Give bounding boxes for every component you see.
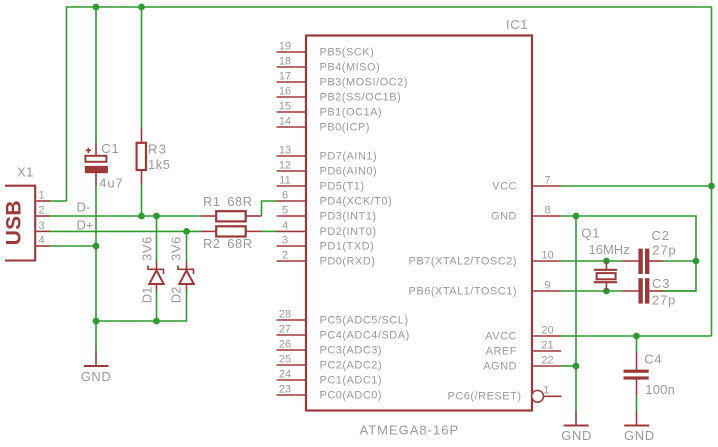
pin 15 PB1: [277, 111, 307, 113]
svg-text:12: 12: [279, 160, 291, 172]
svg-text:PC1(ADC1): PC1(ADC1): [320, 375, 383, 387]
wire XTAL1 pin9: [561, 290, 622, 292]
svg-text:13: 13: [279, 145, 291, 157]
svg-text:17: 17: [279, 71, 291, 83]
svg-text:GND: GND: [81, 369, 112, 384]
svg-text:6: 6: [282, 190, 288, 202]
svg-text:PB0(ICP): PB0(ICP): [320, 122, 370, 134]
svg-text:10: 10: [541, 250, 553, 262]
svg-text:R268R: R268R: [203, 236, 253, 251]
svg-text:AREF: AREF: [486, 345, 517, 357]
wire D2 to GND bus: [96, 290, 187, 321]
svg-text:1k5: 1k5: [148, 157, 170, 172]
pin 14 PB0: [277, 126, 307, 128]
svg-text:100n: 100n: [645, 382, 675, 397]
svg-text:3: 3: [282, 235, 288, 247]
svg-text:27: 27: [279, 324, 291, 336]
wire R2 to pin4 PD2: [262, 230, 277, 232]
wire AGND pin22: [561, 365, 576, 367]
svg-text:D1: D1: [140, 287, 155, 304]
pin 6 PD4: [277, 200, 307, 202]
capacitor C3 27p: [622, 276, 677, 307]
svg-text:20: 20: [541, 325, 553, 337]
wire C4 branch: [636, 336, 638, 352]
node junction GND vertical: [573, 213, 580, 220]
svg-text:4: 4: [39, 235, 45, 247]
resistor R2: [202, 226, 262, 251]
svg-text:PD0(RXD): PD0(RXD): [320, 256, 376, 268]
pin 20 AVCC: [532, 335, 561, 337]
pin 16 PB2: [277, 96, 307, 98]
wire USB pin1 to VCC rail: [50, 200, 67, 202]
pin 22 AGND: [532, 365, 561, 367]
diode D2 zener 3V6: [168, 231, 193, 303]
node junction D2 D+: [183, 228, 190, 235]
node junction top rail R3: [138, 4, 145, 11]
svg-text:C2: C2: [652, 228, 670, 243]
pin 25 PC2: [277, 364, 307, 366]
wire R3 to D-: [141, 185, 143, 216]
svg-text:11: 11: [279, 175, 290, 187]
IC U1 body ATMEGA8: [306, 17, 532, 437]
svg-text:27p: 27p: [652, 243, 676, 258]
wire C1 to GND bus: [95, 186, 97, 321]
node junction AGND: [573, 363, 580, 370]
node junction crystal top: [603, 258, 610, 265]
svg-text:GND: GND: [491, 210, 517, 222]
svg-text:D+: D+: [77, 218, 94, 233]
svg-text:14: 14: [279, 116, 291, 128]
svg-text:ATMEGA8-16P: ATMEGA8-16P: [360, 422, 460, 437]
svg-text:3: 3: [39, 220, 45, 232]
svg-text:8: 8: [544, 205, 550, 217]
svg-text:PB5(SCK): PB5(SCK): [320, 47, 375, 59]
pin 4 PD2: [277, 230, 307, 232]
wire AVCC pin20 to right rail: [561, 335, 712, 337]
ground GND middle: [561, 411, 592, 443]
svg-text:18: 18: [279, 56, 291, 68]
svg-text:USB: USB: [3, 200, 26, 245]
svg-text:9: 9: [544, 280, 550, 292]
svg-text:PD6(AIN0): PD6(AIN0): [320, 166, 378, 178]
svg-text:27p: 27p: [652, 293, 676, 308]
svg-text:15: 15: [279, 101, 291, 113]
svg-text:R168R: R168R: [203, 194, 253, 209]
pin 2 PD0: [277, 260, 307, 262]
node junction R3 D-: [138, 213, 145, 220]
svg-text:D2: D2: [168, 287, 183, 304]
pin 23 PC0: [277, 394, 307, 396]
svg-text:3V6: 3V6: [169, 236, 184, 261]
capacitor C1: [85, 7, 123, 190]
svg-text:16: 16: [279, 86, 291, 98]
wire AGND column: [575, 216, 577, 411]
svg-text:AVCC: AVCC: [485, 330, 517, 342]
wire VCC top rail: [67, 7, 712, 336]
svg-text:PD5(T1): PD5(T1): [320, 181, 365, 193]
svg-text:7: 7: [544, 175, 550, 187]
pin 1 PC6 reset with inversion bubble: [532, 390, 544, 402]
node junction top rail C1: [93, 4, 100, 11]
node junction C4 tap: [633, 333, 640, 340]
svg-text:PB2(SS/OC1B): PB2(SS/OC1B): [320, 92, 402, 104]
node junction GND bus D1: [153, 318, 160, 325]
pin 1 of X1: [36, 200, 50, 202]
svg-text:PB7(XTAL2/TOSC2): PB7(XTAL2/TOSC2): [409, 255, 517, 267]
svg-text:R3: R3: [148, 141, 167, 156]
svg-text:PB4(MISO): PB4(MISO): [320, 62, 381, 74]
svg-text:2: 2: [39, 205, 45, 217]
ground GND left: [81, 351, 112, 384]
resistor R1: [202, 194, 262, 221]
svg-text:22: 22: [541, 355, 553, 367]
node junction crystal bottom: [603, 288, 610, 295]
svg-text:3V6: 3V6: [139, 236, 154, 261]
svg-text:16MHz: 16MHz: [589, 242, 630, 257]
svg-text:2: 2: [282, 250, 288, 262]
svg-text:AGND: AGND: [483, 360, 517, 372]
svg-text:24: 24: [279, 369, 291, 381]
pin 3 PD1: [277, 245, 307, 247]
svg-text:1: 1: [543, 385, 549, 397]
svg-text:25: 25: [279, 354, 291, 366]
ground GND right: [624, 411, 655, 443]
svg-text:19: 19: [279, 41, 291, 53]
svg-text:PC4(ADC4/SDA): PC4(ADC4/SDA): [320, 330, 410, 342]
wire net D-: [50, 215, 202, 217]
svg-text:X1: X1: [17, 164, 34, 179]
svg-text:PB1(OC1A): PB1(OC1A): [320, 107, 383, 119]
wire USB pin4 to GND: [50, 245, 96, 247]
pin 19 PB5: [277, 51, 307, 53]
svg-text:PC2(ADC2): PC2(ADC2): [320, 360, 383, 372]
svg-text:C3: C3: [652, 276, 670, 291]
pin 2 of X1: [36, 215, 50, 217]
node junction GND bus C1: [93, 318, 100, 325]
node junction GND pin4: [93, 243, 100, 250]
svg-text:PC0(ADC0): PC0(ADC0): [320, 390, 383, 402]
svg-text:PD3(INT1): PD3(INT1): [320, 211, 377, 223]
pin 10 PB7: [532, 260, 561, 262]
pin 17 PB3: [277, 81, 307, 83]
capacitor C4 100n: [624, 351, 676, 397]
wire VCC pin7 to right rail: [561, 185, 712, 187]
pin 3 of X1: [36, 230, 50, 232]
pin 4 of X1: [36, 245, 50, 247]
svg-text:PC6(/RESET): PC6(/RESET): [448, 391, 522, 403]
node junction C2 right: [693, 258, 700, 265]
svg-text:PD4(XCK/T0): PD4(XCK/T0): [320, 196, 393, 208]
svg-text:PD1(TXD): PD1(TXD): [320, 241, 375, 253]
resistor R3: [137, 7, 171, 185]
wire R1 to pin6 PD4: [262, 201, 277, 216]
pin 7 VCC: [532, 185, 561, 187]
pin 8 GND: [532, 215, 561, 217]
svg-text:GND: GND: [624, 428, 655, 443]
svg-text:D-: D-: [77, 200, 91, 215]
wire D1 to GND bus: [156, 290, 158, 321]
pin 5 PD3: [277, 215, 307, 217]
svg-text:28: 28: [279, 309, 291, 321]
svg-text:PB3(MOSI/OC2): PB3(MOSI/OC2): [320, 77, 408, 89]
diode D1 zener 3V6: [139, 216, 163, 303]
svg-text:4u7: 4u7: [99, 175, 123, 190]
pin 13 PD7: [277, 155, 307, 157]
wire C3 right to GND net: [663, 290, 696, 292]
svg-text:5: 5: [282, 205, 288, 217]
pin 18 PB4: [277, 66, 307, 68]
svg-text:4: 4: [282, 220, 288, 232]
connector X1 USB body: [3, 164, 36, 260]
svg-text:C1: C1: [101, 141, 119, 156]
pin 9 PB6: [532, 290, 561, 292]
wire XTAL2 pin10: [561, 260, 622, 262]
pin 27 PC4: [277, 334, 307, 336]
svg-text:Q1: Q1: [581, 226, 600, 241]
pin 28 PC5: [277, 319, 307, 321]
pin 24 PC1: [277, 379, 307, 381]
node junction VCC right rail: [708, 183, 715, 190]
wire GND pin8 net: [561, 216, 696, 291]
wire C4 to GND: [636, 396, 638, 412]
wire net D+: [50, 230, 202, 232]
svg-text:PB6(XTAL1/TOSC1): PB6(XTAL1/TOSC1): [409, 285, 517, 297]
svg-text:26: 26: [279, 339, 291, 351]
pin 11 PD5: [277, 185, 307, 187]
wire C2 right to GND net: [663, 260, 696, 262]
capacitor C2 27p: [622, 228, 677, 274]
svg-text:PC5(ADC5/SCL): PC5(ADC5/SCL): [320, 315, 409, 327]
svg-text:PD7(AIN1): PD7(AIN1): [320, 151, 378, 163]
svg-text:PC3(ADC3): PC3(ADC3): [320, 345, 383, 357]
pin 21 AREF: [532, 350, 561, 352]
svg-text:C4: C4: [644, 351, 662, 366]
svg-text:1: 1: [39, 190, 45, 202]
svg-text:VCC: VCC: [492, 180, 517, 192]
pin 26 PC3: [277, 349, 307, 351]
node junction D1 D-: [153, 213, 160, 220]
svg-text:GND: GND: [561, 428, 592, 443]
pin 12 PD6: [277, 170, 307, 172]
svg-text:21: 21: [541, 340, 553, 352]
wire GND bus down: [95, 321, 97, 351]
crystal Q1 16MHz: [581, 226, 629, 291]
svg-text:PD2(INT0): PD2(INT0): [320, 226, 377, 238]
svg-text:23: 23: [279, 384, 291, 396]
svg-text:IC1: IC1: [506, 17, 528, 32]
